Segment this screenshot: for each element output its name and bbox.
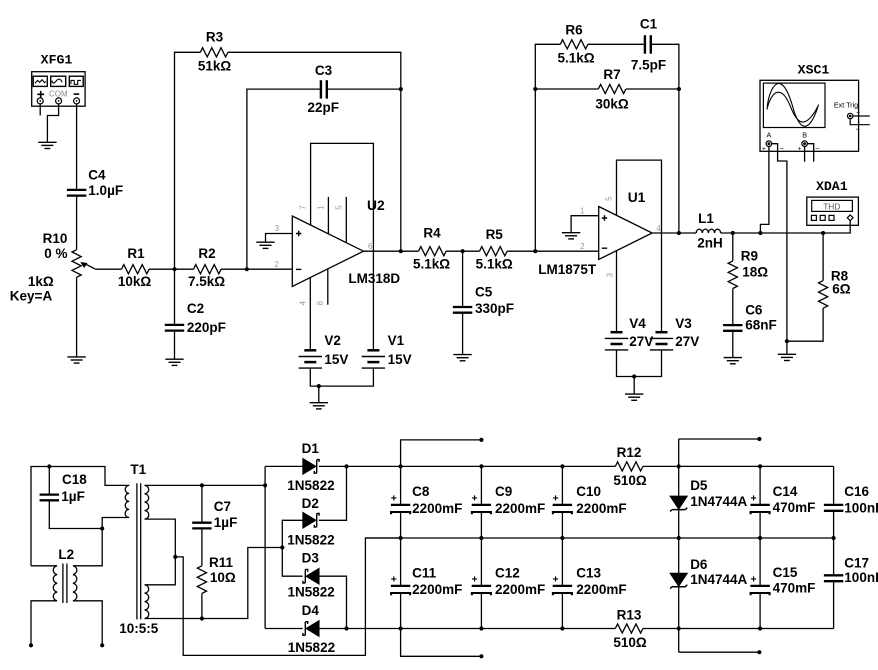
- svg-text:R11: R11: [209, 555, 234, 570]
- +V top rail: [347, 465, 834, 467]
- wire XFG1 COM to ground: [47, 104, 58, 142]
- pin 7 + top box wire to V1: [311, 143, 374, 350]
- diode D1 1N5822: [265, 465, 303, 467]
- wire C7 top lead: [201, 485, 203, 521]
- resistor R1: [122, 265, 150, 274]
- svg-text:R4: R4: [423, 226, 441, 241]
- wire battery bottoms to ground: [310, 368, 373, 386]
- svg-text:C2: C2: [187, 301, 204, 316]
- svg-text:+: +: [391, 493, 397, 505]
- svg-text:470mF: 470mF: [773, 500, 816, 515]
- battery V3 27V: [650, 332, 673, 350]
- svg-text:6Ω: 6Ω: [832, 282, 851, 297]
- svg-text:68nF: 68nF: [745, 318, 777, 333]
- bottom-right stub with terminal: [679, 651, 760, 653]
- wire C3 branch up: [247, 89, 320, 269]
- pin 1 stub + ground: [571, 216, 599, 233]
- wire C4 to R10: [76, 197, 78, 250]
- svg-text:−: −: [815, 144, 820, 153]
- wire R9 to C6: [732, 289, 734, 325]
- capacitor C18: [40, 495, 59, 501]
- svg-text:R12: R12: [617, 445, 642, 460]
- capacitor C6: [723, 325, 742, 331]
- ground (C6): [724, 358, 742, 364]
- svg-text:3: 3: [274, 224, 279, 233]
- node feedback/R5: [533, 249, 537, 253]
- ground (C2): [165, 359, 183, 365]
- svg-text:D2: D2: [302, 496, 319, 511]
- pin 5 stub: [345, 197, 347, 243]
- capacitor C10 2200mF: [561, 466, 563, 538]
- pin 3 wire down to V4: [616, 251, 618, 333]
- svg-text:C14: C14: [773, 484, 798, 499]
- R10 wiper arrow: [85, 264, 96, 270]
- svg-text:100nF: 100nF: [844, 570, 878, 585]
- svg-text:+: +: [751, 574, 757, 586]
- bottom-left stub with terminal: [401, 629, 482, 657]
- svg-text:A: A: [767, 131, 772, 140]
- ground (V3/V4): [625, 394, 643, 400]
- svg-text:2nH: 2nH: [697, 236, 723, 251]
- svg-text:C12: C12: [495, 566, 520, 581]
- distortion analyzer XDA1: [807, 179, 859, 225]
- svg-text:B: B: [802, 131, 807, 140]
- svg-text:4: 4: [298, 300, 307, 305]
- svg-text:7.5pF: 7.5pF: [631, 57, 666, 72]
- resistor R13: [615, 624, 643, 633]
- svg-text:2200mF: 2200mF: [576, 582, 626, 597]
- pin 1 stub: [327, 197, 329, 234]
- svg-text:15V: 15V: [388, 352, 412, 367]
- svg-text:D6: D6: [690, 557, 708, 572]
- svg-text:R1: R1: [127, 246, 145, 261]
- wire mains top rail to T1 primary: [31, 467, 129, 566]
- svg-text:D5: D5: [690, 478, 708, 493]
- node R2/C3/pin2: [245, 267, 249, 271]
- svg-text:C18: C18: [62, 472, 87, 487]
- svg-text:0 %: 0 %: [44, 246, 67, 261]
- node C3/R3 vertical: [399, 87, 403, 91]
- T1 secondary top winding: [145, 485, 176, 557]
- resistor R9: [732, 233, 734, 261]
- svg-text:−: −: [780, 144, 785, 153]
- svg-text:R7: R7: [603, 67, 620, 82]
- svg-text:R5: R5: [486, 227, 504, 242]
- resistor R2: [194, 265, 222, 274]
- op-amp U1 LM1875T: [599, 207, 652, 260]
- capacitor C15 470mF: [759, 538, 761, 629]
- svg-text:2200mF: 2200mF: [412, 582, 462, 597]
- diode D4 1N5822: [265, 628, 303, 630]
- pin 5 wire to box and V3: [617, 160, 662, 332]
- svg-text:L1: L1: [698, 211, 714, 226]
- svg-text:1µF: 1µF: [61, 489, 85, 504]
- svg-text:Ext Trig: Ext Trig: [834, 101, 858, 110]
- U1 output wire to L1: [652, 232, 696, 234]
- wire scope A+ down to output line: [760, 147, 769, 234]
- svg-text:1N5822: 1N5822: [287, 478, 334, 493]
- node D3/D4 anodes: [344, 626, 348, 630]
- svg-text:2: 2: [274, 260, 279, 269]
- svg-text:XSC1: XSC1: [798, 63, 830, 78]
- wire scope A- down to ground: [772, 144, 787, 342]
- resistor R3: [200, 48, 228, 57]
- op-amp U2 LM318D: [292, 216, 363, 286]
- wire C7 to R11: [201, 529, 203, 566]
- svg-text:510Ω: 510Ω: [613, 473, 647, 488]
- svg-text:V4: V4: [629, 316, 646, 331]
- resistor R4: [419, 247, 447, 256]
- svg-text:U2: U2: [367, 198, 385, 213]
- svg-text:+: +: [472, 574, 478, 586]
- svg-text:C3: C3: [315, 63, 333, 78]
- svg-text:1N4744A: 1N4744A: [690, 494, 747, 509]
- capacitor C9 2200mF: [480, 466, 482, 538]
- diode D2 1N5822: [282, 520, 303, 547]
- oscilloscope XSC1: [760, 63, 870, 154]
- capacitor C5: [453, 307, 472, 313]
- svg-text:THD: THD: [823, 202, 840, 212]
- svg-text:C13: C13: [576, 566, 601, 581]
- svg-text:D4: D4: [302, 603, 320, 618]
- resistor R5: [480, 247, 508, 256]
- capacitor C8 2200mF: [400, 466, 402, 538]
- wire wiper to R1: [96, 268, 122, 270]
- svg-text:10Ω: 10Ω: [210, 570, 236, 585]
- resistor R11: [197, 566, 206, 594]
- node feedback/output: [399, 249, 403, 253]
- capacitor C11 2200mF: [400, 538, 402, 629]
- svg-text:5.1kΩ: 5.1kΩ: [557, 50, 594, 65]
- svg-text:1N5822: 1N5822: [287, 533, 334, 548]
- wire down to C5: [462, 251, 464, 306]
- svg-text:1N4744A: 1N4744A: [690, 572, 747, 587]
- svg-text:10:5:5: 10:5:5: [119, 621, 159, 636]
- wire R3 right over to output vertical: [228, 52, 401, 251]
- wire S1 vertical (D1 anode / D4 cathode): [264, 466, 266, 628]
- wire C3 right to feedback node: [328, 88, 401, 90]
- svg-text:XDA1: XDA1: [816, 179, 848, 194]
- capacitor C17 100nF: [833, 538, 835, 629]
- svg-text:1kΩ: 1kΩ: [28, 274, 54, 289]
- svg-text:15V: 15V: [324, 352, 348, 367]
- -V bottom rail: [347, 628, 834, 630]
- wire R4 to R5: [446, 250, 479, 252]
- svg-text:2200mF: 2200mF: [576, 501, 626, 516]
- svg-text:D3: D3: [302, 551, 320, 566]
- svg-text:+: +: [553, 493, 559, 505]
- svg-text:30kΩ: 30kΩ: [595, 96, 629, 111]
- wire R2 to U2 inverting input: [221, 268, 292, 270]
- ground (V1/V2): [310, 403, 328, 409]
- svg-text:100nF: 100nF: [844, 501, 878, 516]
- svg-text:C15: C15: [773, 565, 798, 580]
- svg-text:1µF: 1µF: [214, 515, 238, 530]
- svg-text:C6: C6: [745, 303, 763, 318]
- T1 secondary bottom winding: [145, 557, 176, 619]
- wire C6 to ground: [732, 331, 734, 358]
- resistor R8: [822, 233, 824, 281]
- potentiometer R10: [72, 250, 81, 278]
- svg-text:−: −: [856, 125, 861, 134]
- main output line to XDA1: [721, 221, 851, 233]
- svg-text:5: 5: [335, 205, 344, 210]
- svg-text:2200mF: 2200mF: [495, 582, 545, 597]
- node D2/D3: [280, 545, 284, 549]
- top-left stub with terminal: [401, 440, 482, 467]
- svg-text:D1: D1: [302, 441, 320, 456]
- rail junction dots: [399, 464, 403, 468]
- pin 3 stub + ground: [266, 234, 293, 243]
- svg-text:22pF: 22pF: [307, 100, 339, 115]
- svg-text:LM318D: LM318D: [348, 271, 400, 286]
- capacitor C1: [645, 35, 651, 54]
- capacitor C2: [165, 325, 184, 331]
- svg-text:5.1kΩ: 5.1kΩ: [476, 257, 513, 272]
- svg-text:5: 5: [605, 196, 614, 201]
- svg-text:3: 3: [606, 272, 615, 277]
- svg-text:18Ω: 18Ω: [742, 265, 768, 280]
- wire R3 loop: [175, 52, 201, 269]
- svg-text:C9: C9: [495, 484, 512, 499]
- capacitor C13 2200mF: [561, 538, 563, 629]
- wire C1 right and down: [652, 44, 679, 233]
- resistor R12: [615, 462, 643, 471]
- svg-text:51kΩ: 51kΩ: [198, 59, 232, 74]
- svg-text:C7: C7: [214, 499, 231, 514]
- svg-text:8: 8: [316, 300, 325, 305]
- capacitor C3: [321, 80, 327, 98]
- zener diode D5 1N4744A: [670, 496, 687, 511]
- svg-text:27V: 27V: [629, 334, 653, 349]
- svg-text:330pF: 330pF: [475, 301, 514, 316]
- svg-text:+: +: [553, 574, 559, 586]
- node output/feedback: [677, 231, 681, 235]
- ground (R10): [67, 357, 85, 363]
- zener diode D6 1N4744A: [670, 573, 687, 588]
- svg-text:+: +: [798, 146, 802, 153]
- resistor R7: [535, 88, 598, 90]
- svg-text:R10: R10: [43, 231, 68, 246]
- svg-text:5.1kΩ: 5.1kΩ: [413, 257, 450, 272]
- wire battery bottoms to ground: [617, 350, 662, 377]
- svg-text:1N5822: 1N5822: [288, 640, 335, 655]
- svg-text:C16: C16: [844, 484, 869, 499]
- T1 primary winding: [102, 485, 129, 528]
- svg-text:+: +: [751, 493, 757, 505]
- capacitor C14 470mF: [759, 466, 761, 538]
- wire R10 bottom to ground: [76, 277, 78, 357]
- ground (XFG1 COM): [38, 142, 56, 148]
- svg-text:R3: R3: [206, 29, 224, 44]
- svg-text:220pF: 220pF: [187, 320, 226, 335]
- wire center tap to 0V mid rail: [175, 538, 400, 655]
- svg-text:V1: V1: [388, 333, 405, 348]
- svg-text:1: 1: [317, 205, 326, 210]
- svg-text:1: 1: [580, 207, 585, 216]
- battery V1 15V: [362, 350, 385, 368]
- svg-text:27V: 27V: [675, 334, 699, 349]
- svg-text:Key=A: Key=A: [10, 289, 53, 304]
- svg-text:R2: R2: [198, 246, 215, 261]
- wire C2 to ground: [174, 331, 176, 360]
- svg-text:L2: L2: [58, 547, 74, 562]
- svg-text:1N5822: 1N5822: [288, 585, 335, 600]
- wire R8 bottom to ground node: [787, 308, 823, 341]
- pin 4 wire down to V2: [309, 277, 311, 350]
- wire scope B stubs: [805, 144, 814, 162]
- svg-text:2200mF: 2200mF: [495, 501, 545, 516]
- ground (R8 / scope A-): [778, 354, 796, 360]
- svg-text:COM: COM: [49, 90, 68, 99]
- capacitor C12 2200mF: [480, 538, 482, 629]
- node C18/T1/L2: [100, 526, 104, 530]
- L2 terminal dots: [29, 643, 33, 647]
- resistor R6: [560, 40, 588, 49]
- svg-text:510Ω: 510Ω: [613, 635, 647, 650]
- wire C18 bottom to node: [49, 500, 102, 528]
- svg-text:2: 2: [580, 242, 585, 251]
- wire R6 to C1: [588, 43, 644, 45]
- pin 8 stub: [327, 269, 329, 305]
- capacitor C7: [192, 523, 211, 529]
- svg-text:7: 7: [299, 205, 308, 210]
- wire R11 bottom: [201, 593, 203, 618]
- svg-text:4: 4: [656, 224, 661, 233]
- wire XFG1 - terminal down to C4: [76, 104, 78, 189]
- wire junction down to C2: [174, 269, 176, 324]
- wire R5 to U1 inverting input: [507, 250, 599, 252]
- wire XFG1 + stub: [39, 104, 41, 116]
- svg-text:T1: T1: [130, 462, 146, 477]
- svg-text:C5: C5: [475, 285, 493, 300]
- svg-text:R6: R6: [565, 23, 583, 38]
- feedback network R6/C1/R7: [535, 44, 560, 251]
- svg-text:R13: R13: [617, 608, 642, 623]
- svg-text:10kΩ: 10kΩ: [118, 274, 152, 289]
- node D1/D2 cathodes: [344, 464, 348, 468]
- zener column vertical: [678, 439, 680, 652]
- wire C18 top lead: [48, 467, 50, 494]
- svg-text:LM1875T: LM1875T: [538, 262, 597, 277]
- svg-text:C8: C8: [412, 484, 430, 499]
- battery V4 27V: [605, 332, 628, 350]
- svg-text:C11: C11: [412, 566, 437, 581]
- top-right stub with terminal: [679, 438, 760, 440]
- svg-text:470mF: 470mF: [773, 581, 816, 596]
- capacitor C16 100nF: [833, 466, 835, 538]
- node C5 tap: [461, 249, 465, 253]
- svg-text:C17: C17: [844, 556, 869, 571]
- ground (C5): [453, 355, 471, 361]
- wire S2 rail: secondary bottom: [145, 548, 283, 619]
- inductor L1: [696, 229, 720, 233]
- svg-text:+: +: [762, 146, 766, 153]
- svg-text:U1: U1: [628, 190, 646, 205]
- svg-text:1.0µF: 1.0µF: [88, 183, 123, 198]
- diode D3 1N5822: [282, 548, 302, 577]
- svg-text:+: +: [472, 493, 478, 505]
- svg-text:XFG1: XFG1: [41, 53, 73, 68]
- svg-text:R9: R9: [741, 249, 758, 264]
- svg-text:V2: V2: [324, 333, 341, 348]
- node R1/R2/R3/C2: [172, 267, 176, 271]
- svg-text:2200mF: 2200mF: [412, 501, 462, 516]
- battery V2 15V: [299, 350, 322, 368]
- svg-text:C4: C4: [88, 167, 106, 182]
- svg-text:+: +: [391, 574, 397, 586]
- wire S1 rail: secondary top to diode block: [145, 484, 266, 486]
- svg-text:C10: C10: [576, 484, 601, 499]
- wire C5 to ground: [462, 313, 464, 355]
- 0V mid rail: [365, 537, 833, 539]
- function generator XFG1: [32, 53, 85, 107]
- svg-text:C1: C1: [640, 16, 658, 31]
- node center tap: [173, 555, 177, 559]
- wire R1 to junction: [149, 268, 193, 270]
- U2 output wire: [364, 250, 419, 252]
- capacitor C4: [67, 190, 86, 196]
- svg-text:V3: V3: [675, 316, 692, 331]
- svg-text:6: 6: [368, 242, 373, 251]
- svg-text:7.5kΩ: 7.5kΩ: [188, 274, 225, 289]
